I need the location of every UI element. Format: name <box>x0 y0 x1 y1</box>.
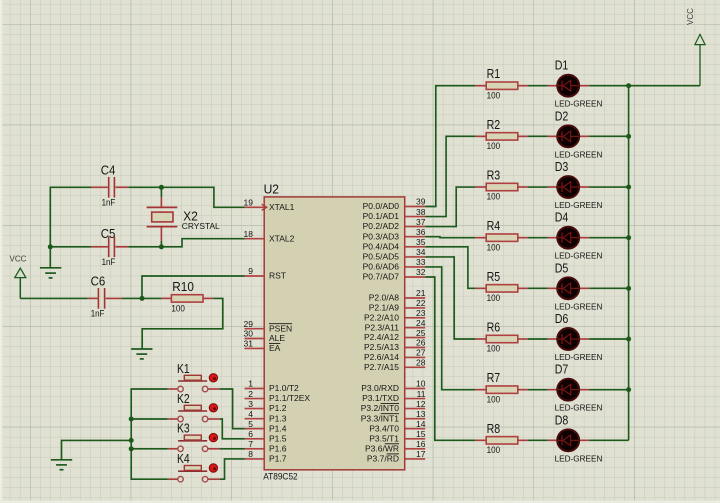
wire C4 to XTAL1 (pin 19) <box>128 187 244 207</box>
svg-text:AT89C52: AT89C52 <box>263 472 298 482</box>
capacitor C6 <box>88 274 122 319</box>
svg-text:D3: D3 <box>555 159 569 174</box>
svg-text:LED-GREEN: LED-GREEN <box>555 99 603 109</box>
U2 pin 24 P2.3/A11 <box>365 318 426 332</box>
resistor R6 <box>475 320 527 354</box>
svg-text:D4: D4 <box>555 210 569 225</box>
svg-text:LED-GREEN: LED-GREEN <box>555 301 603 311</box>
button K4 <box>168 451 220 482</box>
svg-text:EA: EA <box>269 343 281 353</box>
svg-text:XTAL1: XTAL1 <box>269 202 295 212</box>
U2 pin 33 P0.6/AD6 <box>363 257 426 271</box>
svg-text:19: 19 <box>244 198 254 208</box>
svg-text:18: 18 <box>244 229 254 239</box>
wire P0.4 to R5 <box>425 247 475 289</box>
svg-text:100: 100 <box>487 192 501 202</box>
wire K1 to P1.4 (pin 5) <box>220 389 245 429</box>
svg-text:12: 12 <box>416 399 426 409</box>
wire bus to ground <box>62 440 132 459</box>
resistor R5 <box>475 269 527 303</box>
wire R3 to D3 <box>528 186 548 188</box>
wire P0.5 to R6 <box>425 257 475 339</box>
LED D4 <box>548 210 603 261</box>
svg-text:C4: C4 <box>101 162 116 177</box>
junction bus / ground wire <box>129 438 134 443</box>
svg-text:6: 6 <box>248 429 253 439</box>
svg-text:P1.7: P1.7 <box>269 454 287 464</box>
svg-text:36: 36 <box>416 227 426 237</box>
svg-text:29: 29 <box>244 319 254 329</box>
wire K3 to P1.6 (pin 7) <box>220 448 245 450</box>
U2 pin 21 P2.0/A8 <box>369 288 426 302</box>
U2 pin 9 RST <box>245 266 287 280</box>
svg-text:LED-GREEN: LED-GREEN <box>555 251 603 261</box>
svg-text:100: 100 <box>487 445 501 455</box>
LED D3 <box>548 159 603 210</box>
svg-text:R10: R10 <box>172 279 194 294</box>
crystal X2 <box>147 187 220 247</box>
svg-text:P1.1/T2EX: P1.1/T2EX <box>269 393 310 403</box>
U2 pin 19 XTAL1 <box>244 198 295 212</box>
svg-text:11: 11 <box>417 389 426 399</box>
microcontroller U2 (AT89C52) <box>263 182 405 482</box>
U2 pin 34 P0.5/AD5 <box>363 247 426 261</box>
U2 pin 13 P3.3/INT1 <box>361 409 426 423</box>
U2 pin 23 P2.2/A10 <box>364 308 426 322</box>
svg-text:D5: D5 <box>555 260 569 275</box>
svg-text:P0.2/AD2: P0.2/AD2 <box>363 221 400 231</box>
junction bus / D2 <box>626 134 631 139</box>
junction X2 top / C4 net <box>159 185 164 190</box>
svg-text:P2.3/A11: P2.3/A11 <box>365 322 400 332</box>
junction bus / D5 <box>626 286 631 291</box>
resistor R2 <box>475 117 527 151</box>
svg-text:K1: K1 <box>177 361 190 376</box>
svg-text:P3.2/INT0: P3.2/INT0 <box>361 403 400 413</box>
U2 pin 4 P1.3 <box>245 409 287 423</box>
svg-text:2: 2 <box>248 389 253 399</box>
U2 pin 31 EA <box>244 339 281 353</box>
U2 pin 8 P1.7 <box>245 449 287 463</box>
wire C5 to ground rail <box>50 246 91 248</box>
svg-text:100: 100 <box>487 293 501 303</box>
svg-text:3: 3 <box>248 399 253 409</box>
button K3 <box>168 421 220 452</box>
svg-text:100: 100 <box>487 394 501 404</box>
svg-text:P0.4/AD4: P0.4/AD4 <box>363 241 400 251</box>
svg-text:27: 27 <box>416 348 426 358</box>
svg-text:P2.0/A8: P2.0/A8 <box>369 293 400 303</box>
U2 pin 27 P2.6/A14 <box>364 348 426 362</box>
svg-text:LED-GREEN: LED-GREEN <box>555 403 603 413</box>
wire P0.2 to R3 <box>425 187 475 227</box>
svg-text:CRYSTAL: CRYSTAL <box>182 221 220 231</box>
svg-text:P3.7/RD: P3.7/RD <box>367 454 399 464</box>
svg-text:4: 4 <box>248 409 253 419</box>
svg-text:R1: R1 <box>487 66 501 81</box>
svg-text:1nF: 1nF <box>102 197 116 207</box>
U2 pin 29 PSEN <box>244 319 293 333</box>
svg-text:7: 7 <box>248 439 253 449</box>
svg-text:8: 8 <box>248 449 253 459</box>
svg-text:38: 38 <box>416 207 426 217</box>
U2 pin 5 P1.4 <box>245 419 287 433</box>
svg-text:P2.6/A14: P2.6/A14 <box>364 352 399 362</box>
svg-text:K3: K3 <box>177 421 190 436</box>
LED D2 <box>548 108 603 159</box>
svg-text:P1.5: P1.5 <box>269 433 287 443</box>
U2 pin 1 P1.0/T2 <box>245 379 300 393</box>
junction bus / D3 <box>626 185 631 190</box>
svg-text:5: 5 <box>248 419 253 429</box>
wire P0.3 to R4 <box>425 236 475 239</box>
svg-text:R2: R2 <box>487 117 501 132</box>
U2 pin 30 ALE <box>244 329 286 343</box>
wire K2 to P1.5 (pin 6) <box>220 419 245 439</box>
svg-text:D2: D2 <box>555 108 569 123</box>
svg-text:100: 100 <box>487 141 501 151</box>
svg-text:LED-GREEN: LED-GREEN <box>555 453 603 463</box>
U2 pin 2 P1.1/T2EX <box>245 389 311 403</box>
svg-text:P1.6: P1.6 <box>269 443 287 453</box>
svg-text:P1.2: P1.2 <box>269 403 287 413</box>
junction bus / D4 <box>626 235 631 240</box>
wire C4 to ground rail <box>50 187 91 247</box>
svg-text:LED-GREEN: LED-GREEN <box>555 200 603 210</box>
wire LED common bus <box>628 86 630 441</box>
junction C6 / R10 / RST <box>140 296 145 301</box>
svg-text:LED-GREEN: LED-GREEN <box>555 149 603 159</box>
wire button common bus <box>131 389 167 479</box>
wire R8 to D8 <box>528 439 548 441</box>
ground (crystal caps) <box>40 247 61 278</box>
resistor R7 <box>475 370 527 404</box>
svg-text:R7: R7 <box>487 370 501 385</box>
capacitor C4 <box>91 162 128 207</box>
svg-text:P2.5/A13: P2.5/A13 <box>364 342 399 352</box>
svg-text:10: 10 <box>416 379 426 389</box>
power VCC left <box>10 255 27 299</box>
junction C5 / ground rail <box>48 244 53 249</box>
wire D1 to VCC bus <box>589 85 628 87</box>
svg-text:XTAL2: XTAL2 <box>269 233 295 243</box>
svg-text:16: 16 <box>416 439 426 449</box>
svg-text:30: 30 <box>244 329 254 339</box>
wire R1 to D1 <box>528 85 548 87</box>
wire D5 to VCC bus <box>589 287 628 289</box>
junction bus / D7 <box>626 387 631 392</box>
svg-text:P0.5/AD5: P0.5/AD5 <box>363 252 400 262</box>
wire D2 to VCC bus <box>589 135 628 137</box>
svg-text:P1.3: P1.3 <box>269 413 287 423</box>
wire VCC-left to C6 <box>20 297 87 299</box>
svg-text:34: 34 <box>416 247 426 257</box>
svg-text:1nF: 1nF <box>91 309 105 319</box>
svg-text:D6: D6 <box>555 311 569 326</box>
U2 pin 3 P1.2 <box>245 399 287 413</box>
wire D3 to VCC bus <box>589 186 628 188</box>
svg-text:P2.1/A9: P2.1/A9 <box>369 303 400 313</box>
U2 pin 6 P1.5 <box>245 429 287 443</box>
U2 pin 12 P3.2/INT0 <box>361 399 426 413</box>
U2 pin 38 P0.1/AD1 <box>363 207 426 221</box>
svg-text:100: 100 <box>171 304 185 314</box>
svg-text:P0.7/AD7: P0.7/AD7 <box>363 272 400 282</box>
svg-text:1: 1 <box>248 379 253 389</box>
U2 pin 26 P2.5/A13 <box>364 338 426 352</box>
svg-text:R4: R4 <box>487 218 501 233</box>
svg-text:R8: R8 <box>487 421 501 436</box>
svg-text:17: 17 <box>416 449 426 459</box>
svg-text:28: 28 <box>416 358 426 368</box>
wire P0.6 to R7 <box>425 267 475 390</box>
svg-text:13: 13 <box>416 409 426 419</box>
U2 pin 14 P3.4/T0 <box>369 419 426 433</box>
svg-text:P3.5/T1: P3.5/T1 <box>369 433 399 443</box>
LED D5 <box>548 260 603 311</box>
svg-text:P1.4: P1.4 <box>269 423 287 433</box>
U2 pin 15 P3.5/T1 <box>369 429 426 443</box>
wire C6 to RST junction <box>122 297 162 299</box>
junction bus / D1 <box>626 83 631 88</box>
svg-text:LED-GREEN: LED-GREEN <box>555 352 603 362</box>
svg-text:25: 25 <box>416 328 426 338</box>
svg-text:P1.0/T2: P1.0/T2 <box>269 383 299 393</box>
svg-text:26: 26 <box>416 338 426 348</box>
svg-text:P0.0/AD0: P0.0/AD0 <box>363 201 400 211</box>
button K2 <box>168 391 220 422</box>
resistor R1 <box>475 66 527 100</box>
wire R4 to D4 <box>528 237 548 239</box>
svg-text:R6: R6 <box>487 320 501 335</box>
junction bus / K2 <box>129 417 134 422</box>
svg-text:22: 22 <box>416 298 426 308</box>
U2 pin 28 P2.7/A15 <box>364 358 426 372</box>
svg-text:33: 33 <box>416 257 426 267</box>
wire P0.0 to R1 <box>425 86 475 207</box>
resistor R8 <box>475 421 527 455</box>
LED D1 <box>548 58 603 109</box>
svg-text:21: 21 <box>416 288 426 298</box>
U2 pin 7 P1.6 <box>245 439 287 453</box>
U2 pin 18 XTAL2 <box>244 229 295 243</box>
capacitor C5 <box>91 226 128 267</box>
U2 pin 16 P3.6/WR <box>365 439 426 453</box>
LED D6 <box>548 311 603 362</box>
svg-text:P0.1/AD1: P0.1/AD1 <box>363 211 400 221</box>
svg-text:P3.0/RXD: P3.0/RXD <box>361 383 399 393</box>
svg-text:ALE: ALE <box>269 333 285 343</box>
resistor R10 <box>161 279 213 314</box>
svg-text:P2.4/A12: P2.4/A12 <box>364 332 399 342</box>
svg-text:9: 9 <box>248 266 253 276</box>
ground (buttons) <box>51 460 72 470</box>
svg-text:1nF: 1nF <box>102 257 116 267</box>
wire D4 to VCC bus <box>589 237 628 239</box>
svg-text:PSEN: PSEN <box>269 323 292 333</box>
svg-text:32: 32 <box>416 267 426 277</box>
svg-text:P3.6/WR: P3.6/WR <box>365 443 399 453</box>
U2 pin 17 P3.7/RD <box>367 449 426 463</box>
U2 pin 32 P0.7/AD7 <box>363 267 426 281</box>
svg-text:RST: RST <box>269 271 286 281</box>
svg-text:P0.6/AD6: P0.6/AD6 <box>363 262 400 272</box>
LED D7 <box>548 362 603 413</box>
wire C5 to XTAL2 (pin 18) <box>128 239 244 247</box>
svg-text:R5: R5 <box>487 269 501 284</box>
junction bus / K3 <box>129 446 134 451</box>
wire R6 to D6 <box>528 338 548 340</box>
U2 pin 36 P0.3/AD3 <box>363 227 426 241</box>
svg-text:D7: D7 <box>555 362 569 377</box>
svg-text:VCC: VCC <box>686 8 695 25</box>
U2 pin 10 P3.0/RXD <box>361 379 426 393</box>
svg-text:14: 14 <box>416 419 426 429</box>
svg-text:P3.4/T0: P3.4/T0 <box>369 423 399 433</box>
LED D8 <box>548 412 603 463</box>
svg-text:K2: K2 <box>177 391 190 406</box>
svg-text:P3.3/INT1: P3.3/INT1 <box>361 413 400 423</box>
wire K4 to P1.7 (pin 8) <box>220 459 245 479</box>
svg-text:P3.1/TXD: P3.1/TXD <box>362 393 399 403</box>
junction bus / D6 <box>626 337 631 342</box>
svg-text:VCC: VCC <box>10 255 27 264</box>
svg-text:35: 35 <box>416 237 426 247</box>
button K1 <box>168 361 220 392</box>
U2 pin 37 P0.2/AD2 <box>363 217 426 231</box>
svg-text:C6: C6 <box>91 274 106 289</box>
junction X2 bottom / C5 net <box>159 244 164 249</box>
U2 pin 11 P3.1/TXD <box>362 389 426 403</box>
svg-text:37: 37 <box>416 217 426 227</box>
U2 pin 25 P2.4/A12 <box>364 328 426 342</box>
wire D8 to VCC bus <box>589 439 628 441</box>
svg-text:P2.7/A15: P2.7/A15 <box>364 362 399 372</box>
resistor R4 <box>475 218 527 252</box>
svg-text:15: 15 <box>416 429 426 439</box>
resistor R3 <box>475 168 527 202</box>
svg-text:100: 100 <box>487 90 501 100</box>
svg-text:23: 23 <box>416 308 426 318</box>
svg-text:D1: D1 <box>555 58 569 73</box>
svg-text:24: 24 <box>416 318 426 328</box>
svg-text:100: 100 <box>487 242 501 252</box>
wire P0.1 to R2 <box>425 136 475 216</box>
U2 pin 39 P0.0/AD0 <box>363 197 426 211</box>
wire R10 to ground <box>142 298 223 349</box>
U2 pin 35 P0.4/AD4 <box>363 237 426 251</box>
svg-text:R3: R3 <box>487 168 501 183</box>
svg-text:D8: D8 <box>555 412 569 427</box>
power VCC right <box>686 8 705 45</box>
wire D7 to VCC bus <box>589 389 628 391</box>
wire junction to RST (pin 9) <box>142 276 245 298</box>
wire P0.7 to R8 <box>425 277 475 440</box>
svg-text:K4: K4 <box>177 451 190 466</box>
svg-text:100: 100 <box>487 344 501 354</box>
svg-text:P0.3/AD3: P0.3/AD3 <box>363 231 400 241</box>
wire bus to VCC-right <box>629 45 700 86</box>
svg-text:31: 31 <box>244 339 254 349</box>
svg-text:U2: U2 <box>264 182 279 197</box>
svg-text:P2.2/A10: P2.2/A10 <box>364 312 399 322</box>
wire R5 to D5 <box>528 287 548 289</box>
wire R2 to D2 <box>528 135 548 137</box>
U2 pin 22 P2.1/A9 <box>369 298 426 312</box>
ground (reset resistor) <box>131 349 152 359</box>
wire D6 to VCC bus <box>589 338 628 340</box>
wire R7 to D7 <box>528 389 548 391</box>
svg-text:39: 39 <box>416 197 426 207</box>
